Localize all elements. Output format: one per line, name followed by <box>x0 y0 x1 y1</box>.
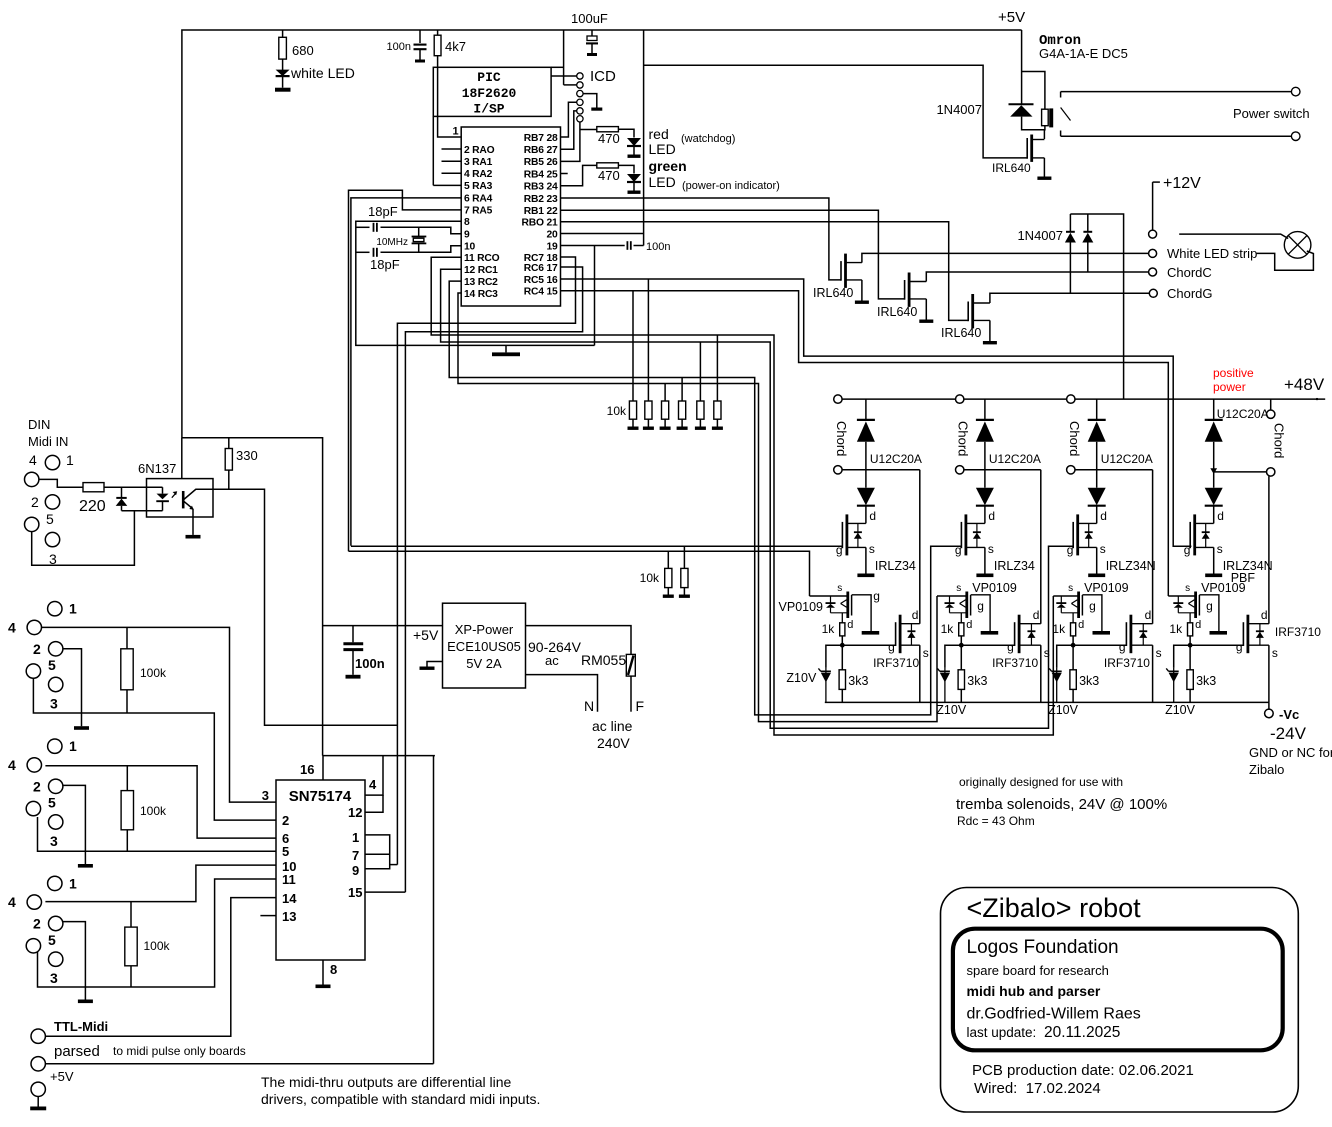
svg-text:7: 7 <box>352 848 359 863</box>
svg-text:1N4007: 1N4007 <box>936 102 982 117</box>
node ground terminal bottom <box>31 1082 45 1096</box>
svg-text:<Zibalo> robot: <Zibalo> robot <box>967 893 1142 923</box>
wire RB1 to IRL640 ChordB gate <box>561 210 905 299</box>
svg-text:s: s <box>1100 542 1106 556</box>
svg-text:SN75174: SN75174 <box>289 788 352 805</box>
svg-text:d: d <box>869 509 876 523</box>
svg-text:100k: 100k <box>144 939 171 953</box>
svg-text:11: 11 <box>282 872 296 887</box>
label box Logos inner <box>953 929 1283 1051</box>
svg-text:Z10V: Z10V <box>1048 703 1079 717</box>
svg-text:s: s <box>837 583 842 594</box>
svg-text:220: 220 <box>79 498 106 515</box>
transistor IRF3710 ch2 <box>961 644 1014 646</box>
wire opto output <box>213 489 397 725</box>
svg-text:IRF3710: IRF3710 <box>1275 625 1321 639</box>
wire +5V to relay <box>1021 30 1023 104</box>
transistor IRF3710 ch3 <box>1073 644 1126 646</box>
svg-text:2: 2 <box>33 778 41 794</box>
wire RC6 line to SN75174 pin15 <box>405 267 582 892</box>
svg-text:240V: 240V <box>597 735 630 751</box>
wire RC2 line <box>449 281 943 715</box>
svg-text:2: 2 <box>33 641 41 657</box>
svg-text:originally designed for use wi: originally designed for use with <box>959 775 1123 789</box>
wire +5V relay-gate branch y65 <box>644 65 1028 158</box>
wire thru2 pin4 to SN75174 pin6 <box>45 766 276 838</box>
svg-text:6 RA4: 6 RA4 <box>464 194 493 205</box>
svg-text:10k: 10k <box>607 404 627 418</box>
svg-text:g: g <box>1184 543 1191 557</box>
wire opto emitter to ground <box>192 509 194 535</box>
diode U12C20A flyback ch4 <box>1270 399 1272 410</box>
wire SN75174 pin16 VCC <box>323 756 435 780</box>
svg-text:g: g <box>1119 640 1126 654</box>
diode U12C20A series ch3 <box>1096 470 1098 488</box>
svg-text:5: 5 <box>46 511 54 527</box>
svg-text:20.11.2025: 20.11.2025 <box>1044 1024 1120 1041</box>
svg-text:RB5 26: RB5 26 <box>524 157 558 168</box>
svg-text:drivers, compatible with stand: drivers, compatible with standard midi i… <box>261 1091 540 1107</box>
wire source rail bottom <box>825 701 1269 703</box>
svg-text:1: 1 <box>352 830 359 845</box>
svg-text:XP-Power: XP-Power <box>455 622 514 637</box>
svg-text:s: s <box>988 542 994 556</box>
node -Vc terminal <box>1268 702 1270 709</box>
wire ICD pin1 to PIC box <box>551 75 577 77</box>
capacitor 100n psu <box>352 626 354 643</box>
wire thru3 pin4 to SN75174 pin10 <box>45 865 276 902</box>
svg-text:1k: 1k <box>941 622 955 636</box>
wire RC1 line <box>441 269 1061 728</box>
wire +5V riser to pin20 <box>643 30 645 246</box>
svg-text:g: g <box>1067 543 1074 557</box>
svg-text:Rdc = 43 Ohm: Rdc = 43 Ohm <box>957 814 1035 828</box>
node +12V terminal <box>1152 182 1154 230</box>
svg-text:470: 470 <box>598 131 620 146</box>
svg-text:midi hub and parser: midi hub and parser <box>967 983 1101 999</box>
svg-text:2: 2 <box>282 813 289 828</box>
diode U12C20A series ch1 <box>865 470 867 488</box>
svg-text:IRF3710: IRF3710 <box>1104 656 1150 670</box>
LED red <box>618 129 634 137</box>
resistor 680 <box>282 30 284 37</box>
wire ICD pin5 to RB6 <box>561 111 577 149</box>
resistor 3k3 ch4 <box>1189 645 1191 670</box>
svg-text:RB3 24: RB3 24 <box>524 182 558 193</box>
diode U12C20A series ch4 <box>1213 470 1215 488</box>
capacitor 100n pin19 <box>561 245 625 247</box>
diode zener Z10V ch1 <box>826 645 842 668</box>
svg-text:Zibalo: Zibalo <box>1249 762 1284 777</box>
svg-text:16: 16 <box>300 762 314 777</box>
svg-text:s: s <box>956 583 961 594</box>
svg-text:100n: 100n <box>646 241 670 253</box>
svg-text:I/SP: I/SP <box>473 102 504 117</box>
svg-text:d: d <box>1145 608 1152 622</box>
svg-text:d: d <box>847 619 853 631</box>
svg-text:last update:: last update: <box>967 1025 1037 1040</box>
svg-text:g: g <box>1089 599 1096 613</box>
svg-text:3: 3 <box>50 970 58 986</box>
svg-text:RB4 25: RB4 25 <box>524 169 558 180</box>
svg-text:4: 4 <box>369 777 377 792</box>
transistor IRF3710 ch1 <box>842 644 895 646</box>
resistor 100k thru1 <box>126 627 128 648</box>
svg-text:s: s <box>1217 542 1223 556</box>
svg-text:IRL640: IRL640 <box>813 286 853 300</box>
svg-text:12: 12 <box>348 805 362 820</box>
wire psu AC input N <box>526 675 598 712</box>
svg-text:7 RA5: 7 RA5 <box>464 206 493 217</box>
svg-text:+5V: +5V <box>998 9 1025 26</box>
svg-text:dr.Godfried-Willem Raes: dr.Godfried-Willem Raes <box>967 1006 1141 1023</box>
diode U12C20A flyback ch2 <box>956 395 964 403</box>
svg-text:4: 4 <box>8 757 16 773</box>
pin stubs PIC 2 3 4 <box>442 148 462 150</box>
svg-text:U12C20A: U12C20A <box>989 452 1041 466</box>
wire RB0 to IRL640 ChordC gate <box>561 222 969 321</box>
svg-text:470: 470 <box>598 168 620 183</box>
svg-text:Power switch: Power switch <box>1233 106 1310 121</box>
svg-text:(power-on indicator): (power-on indicator) <box>682 180 780 192</box>
resistor 3k3 ch2 <box>960 645 962 670</box>
capacitor 100n top <box>419 30 421 43</box>
svg-text:RC4 15: RC4 15 <box>524 287 558 298</box>
node gate ch4 <box>1189 636 1191 645</box>
svg-text:+5V: +5V <box>413 627 439 643</box>
svg-text:3: 3 <box>50 833 58 849</box>
svg-text:3: 3 <box>50 696 58 712</box>
svg-text:1: 1 <box>69 738 77 754</box>
wire opto cathode return <box>122 510 163 512</box>
ground psu 0V pin <box>427 662 443 667</box>
svg-text:1k: 1k <box>1169 622 1183 636</box>
svg-text:5 RA3: 5 RA3 <box>464 181 493 192</box>
svg-text:g: g <box>888 640 895 654</box>
connector DIN thru 1 <box>48 602 62 616</box>
svg-text:d: d <box>1195 619 1201 631</box>
wire thru2 pin2 ground <box>63 785 86 864</box>
capacitor 18pF top <box>356 226 370 228</box>
svg-text:g: g <box>873 589 880 603</box>
svg-text:d: d <box>912 608 919 622</box>
wire +5V riser from bottom connector <box>433 756 435 1064</box>
LED green <box>618 165 634 173</box>
svg-text:s: s <box>1185 583 1190 594</box>
svg-text:F: F <box>636 698 645 714</box>
svg-text:RB6 27: RB6 27 <box>524 145 558 156</box>
svg-text:4: 4 <box>29 452 37 468</box>
node ChordG terminal <box>1149 289 1157 297</box>
wire 4k7 to PIC pin1 <box>438 56 462 137</box>
svg-text:ECE10US05: ECE10US05 <box>447 639 521 654</box>
svg-text:PCB production date: 02.06.202: PCB production date: 02.06.2021 <box>972 1062 1194 1079</box>
svg-text:3 RA1: 3 RA1 <box>464 157 493 168</box>
svg-text:14: 14 <box>282 891 297 906</box>
svg-text:RC5 16: RC5 16 <box>524 275 558 286</box>
connector ICD circles <box>577 73 583 79</box>
transistor IRLZ34N ch4 <box>1189 522 1191 548</box>
svg-text:s: s <box>1156 646 1162 660</box>
resistor 330 <box>228 438 230 449</box>
diode zener Z10V ch3 <box>1057 645 1073 668</box>
transistor IRL640 white LED strip <box>840 261 842 281</box>
svg-text:IRF3710: IRF3710 <box>873 656 919 670</box>
svg-text:6N137: 6N137 <box>138 461 176 476</box>
svg-text:RB2 23: RB2 23 <box>524 194 558 205</box>
node gate ch1 <box>841 636 843 645</box>
svg-text:14 RC3: 14 RC3 <box>464 289 498 300</box>
wire thru1 pin5 net to SN75174 pin2 <box>33 678 276 820</box>
svg-text:9: 9 <box>464 230 470 241</box>
svg-text:s: s <box>1068 583 1073 594</box>
wire pin8 VSS to crystal ground <box>356 221 595 345</box>
wire thru2 pin5 to SN75174 pin5 <box>38 817 277 851</box>
svg-text:Wired: 17.02.2024: Wired: 17.02.2024 <box>974 1080 1101 1097</box>
svg-text:4: 4 <box>8 894 16 910</box>
wire thru1 pin4 to SN75174 pin3 <box>42 627 277 802</box>
node White LED strip terminal <box>1149 249 1157 257</box>
LED white LED <box>282 59 284 70</box>
resistor 470 green <box>561 165 597 185</box>
svg-text:RC6 17: RC6 17 <box>524 263 558 274</box>
svg-text:IRLZ34N: IRLZ34N <box>1106 559 1156 573</box>
svg-text:1: 1 <box>452 126 458 138</box>
label box Zibalo outer <box>941 888 1299 1113</box>
resistor 3k3 ch1 <box>841 645 843 670</box>
svg-text:RB7 28: RB7 28 <box>524 133 558 144</box>
svg-text:+5V: +5V <box>50 1069 74 1084</box>
svg-text:g: g <box>977 599 984 613</box>
svg-text:10MHz: 10MHz <box>376 237 408 248</box>
diode input protection <box>121 487 123 498</box>
wire lamp to white LED strip <box>1257 251 1314 270</box>
svg-text:100k: 100k <box>140 804 167 818</box>
wire lamp to +12V side <box>1179 234 1288 238</box>
svg-text:G4A-1A-E DC5: G4A-1A-E DC5 <box>1039 46 1128 61</box>
svg-text:1: 1 <box>69 875 77 891</box>
svg-text:330: 330 <box>236 448 258 463</box>
svg-text:d: d <box>1078 619 1084 631</box>
svg-text:IRL640: IRL640 <box>992 161 1031 175</box>
svg-text:red: red <box>649 126 669 142</box>
svg-text:2: 2 <box>33 916 41 932</box>
svg-text:1k: 1k <box>822 622 836 636</box>
svg-text:N: N <box>584 698 594 714</box>
wire RB2 to IRL640 ChordA gate <box>561 198 842 280</box>
resistor 100k thru2 <box>126 766 128 791</box>
svg-text:parsed: parsed <box>54 1043 100 1060</box>
wire ICD pin4 to RB7 <box>561 102 577 137</box>
wire SN75174 inputs 1 7 9 <box>365 835 390 869</box>
svg-text:d: d <box>1033 608 1040 622</box>
diode zener Z10V ch4 <box>1174 645 1190 668</box>
wire DIN4 to 220 <box>39 479 83 487</box>
svg-text:d: d <box>1100 509 1107 523</box>
svg-text:to midi pulse only boards: to midi pulse only boards <box>113 1044 246 1058</box>
resistor 3k3 ch3 <box>1072 645 1074 670</box>
svg-text:18pF: 18pF <box>368 204 398 219</box>
wire RC7 RX line <box>397 257 575 865</box>
svg-text:5V 2A: 5V 2A <box>466 656 502 671</box>
svg-text:4 RA2: 4 RA2 <box>464 169 493 180</box>
wire 220 to opto <box>104 486 163 488</box>
chip SN75174 <box>276 780 365 960</box>
svg-text:power: power <box>1213 380 1246 394</box>
svg-text:d: d <box>966 619 972 631</box>
svg-text:5: 5 <box>282 844 289 859</box>
svg-text:g: g <box>955 543 962 557</box>
svg-text:tremba solenoids, 24V @ 100%: tremba solenoids, 24V @ 100% <box>956 796 1167 813</box>
svg-text:9: 9 <box>352 863 359 878</box>
connector DIN thru 2 <box>48 739 62 753</box>
svg-text:white LED: white LED <box>290 65 355 81</box>
wire SN75174 pin13 stub <box>260 915 276 917</box>
svg-text:Z10V: Z10V <box>936 703 967 717</box>
wire +5V branch line <box>182 438 323 756</box>
transistor IRLZ34N ch3 <box>1072 522 1074 548</box>
resistor 470 red <box>580 129 597 131</box>
svg-text:1N4007: 1N4007 <box>1017 228 1063 243</box>
svg-text:1: 1 <box>66 452 74 468</box>
svg-text:+12V: +12V <box>1163 175 1201 192</box>
svg-text:15: 15 <box>348 885 362 900</box>
pin stub PIC 25 <box>561 173 568 175</box>
transistor IRLZ34 ch1 <box>841 522 843 548</box>
svg-text:VP0109: VP0109 <box>972 581 1017 595</box>
svg-text:5: 5 <box>48 657 56 673</box>
svg-text:Chord: Chord <box>1067 421 1082 456</box>
switch power contacts <box>1060 92 1062 98</box>
transistor IRL640 ChordG <box>967 302 969 322</box>
svg-text:3: 3 <box>262 788 269 803</box>
svg-text:DIN: DIN <box>28 417 50 432</box>
svg-text:8: 8 <box>330 962 337 977</box>
svg-text:100n: 100n <box>387 41 411 53</box>
svg-text:13: 13 <box>282 909 296 924</box>
svg-text:680: 680 <box>292 43 314 58</box>
svg-text:Chord: Chord <box>956 421 971 456</box>
svg-text:IRL640: IRL640 <box>877 305 917 319</box>
svg-text:ChordG: ChordG <box>1167 286 1213 301</box>
svg-text:20: 20 <box>546 229 558 240</box>
svg-text:+48V: +48V <box>1284 375 1325 394</box>
svg-text:3k3: 3k3 <box>1196 674 1216 688</box>
svg-text:3k3: 3k3 <box>1079 674 1099 688</box>
transistor IRL640 ChordC <box>904 280 906 300</box>
svg-text:18pF: 18pF <box>370 257 400 272</box>
svg-text:4: 4 <box>8 619 16 635</box>
resistor 1k ch4 <box>1188 623 1193 636</box>
wire RA5 pin7 line <box>349 190 462 551</box>
node +5V terminal bottom <box>31 1057 45 1071</box>
svg-text:100k: 100k <box>140 666 167 680</box>
svg-text:spare board for research: spare board for research <box>967 963 1109 978</box>
wire RC5 line <box>561 279 1192 546</box>
capacitor 18pF bottom <box>356 251 370 253</box>
crystal 10MHz <box>418 227 420 236</box>
chip PIC 18F2620 title box <box>433 67 551 116</box>
svg-text:10k: 10k <box>640 571 660 585</box>
svg-text:Chord: Chord <box>834 421 849 456</box>
svg-text:Z10V: Z10V <box>786 671 817 685</box>
svg-text:TTL-Midi: TTL-Midi <box>54 1019 108 1034</box>
svg-text:RBO 21: RBO 21 <box>522 218 558 229</box>
svg-text:100uF: 100uF <box>571 11 608 26</box>
relay coil <box>1042 109 1049 126</box>
svg-text:d: d <box>1261 608 1268 622</box>
wire thru1 pin2 ground <box>63 649 82 726</box>
svg-text:12 RC1: 12 RC1 <box>464 265 498 276</box>
svg-text:5: 5 <box>48 795 56 811</box>
svg-text:positive: positive <box>1213 366 1254 380</box>
svg-text:2 RAO: 2 RAO <box>464 145 495 156</box>
transistor IRL640 relay driver <box>1026 138 1028 159</box>
wire ICD pin3 to ground <box>583 94 597 108</box>
svg-text:s: s <box>1044 646 1050 660</box>
svg-text:Z10V: Z10V <box>1165 703 1196 717</box>
LED lamp symbol <box>1284 232 1311 259</box>
transistor IRF3710 ch4 <box>1190 644 1243 646</box>
svg-text:-24V: -24V <box>1270 724 1307 743</box>
svg-text:10: 10 <box>464 242 476 253</box>
wire SN75174 pin15 input <box>365 891 405 893</box>
svg-text:-Vc: -Vc <box>1279 707 1299 722</box>
wire ICD pin2 <box>564 84 577 86</box>
svg-text:11 RCO: 11 RCO <box>464 253 500 264</box>
svg-text:(watchdog): (watchdog) <box>681 133 735 145</box>
node ChordC terminal <box>1149 268 1157 276</box>
svg-text:13 RC2: 13 RC2 <box>464 277 498 288</box>
connector DIN thru 3 <box>48 876 62 890</box>
svg-text:IRLZ34: IRLZ34 <box>875 559 916 573</box>
svg-text:3k3: 3k3 <box>967 674 987 688</box>
svg-text:g: g <box>836 543 843 557</box>
svg-text:s: s <box>1272 646 1278 660</box>
svg-text:PIC: PIC <box>477 70 501 85</box>
svg-text:d: d <box>988 509 995 523</box>
node gate ch2 <box>960 636 962 645</box>
svg-text:IRF3710: IRF3710 <box>992 656 1038 670</box>
resistor 100k thru3 <box>130 902 132 928</box>
svg-text:g: g <box>1236 640 1243 654</box>
svg-text:4k7: 4k7 <box>445 39 466 54</box>
wire riser to PIC box <box>563 30 565 85</box>
svg-text:VP0109: VP0109 <box>1084 581 1129 595</box>
diode U12C20A series ch2 <box>984 470 986 488</box>
svg-text:18F2620: 18F2620 <box>462 86 517 101</box>
net +48V rail <box>834 398 1325 400</box>
op-amp U-PIC body <box>461 127 560 306</box>
svg-text:8: 8 <box>464 217 470 228</box>
svg-text:green: green <box>649 158 687 174</box>
svg-text:1: 1 <box>69 601 77 617</box>
svg-text:The midi-thru outputs are diff: The midi-thru outputs are differential l… <box>261 1074 512 1090</box>
svg-text:LED: LED <box>649 174 676 190</box>
svg-text:GND or NC for: GND or NC for <box>1249 745 1332 760</box>
svg-text:s: s <box>923 646 929 660</box>
wire ICD pin6 to RB5 <box>561 122 580 161</box>
resistor 1k ch1 <box>840 623 845 636</box>
svg-text:ICD: ICD <box>590 68 616 85</box>
svg-text:2: 2 <box>31 494 39 510</box>
resistor 220 <box>83 483 104 492</box>
wire pin19 VSS to ground line <box>594 246 596 346</box>
wire RC4 line <box>561 291 1169 596</box>
wire psu +5V output <box>323 625 443 627</box>
svg-text:g: g <box>1206 599 1213 613</box>
ground SN75174 pin8 <box>322 960 324 985</box>
